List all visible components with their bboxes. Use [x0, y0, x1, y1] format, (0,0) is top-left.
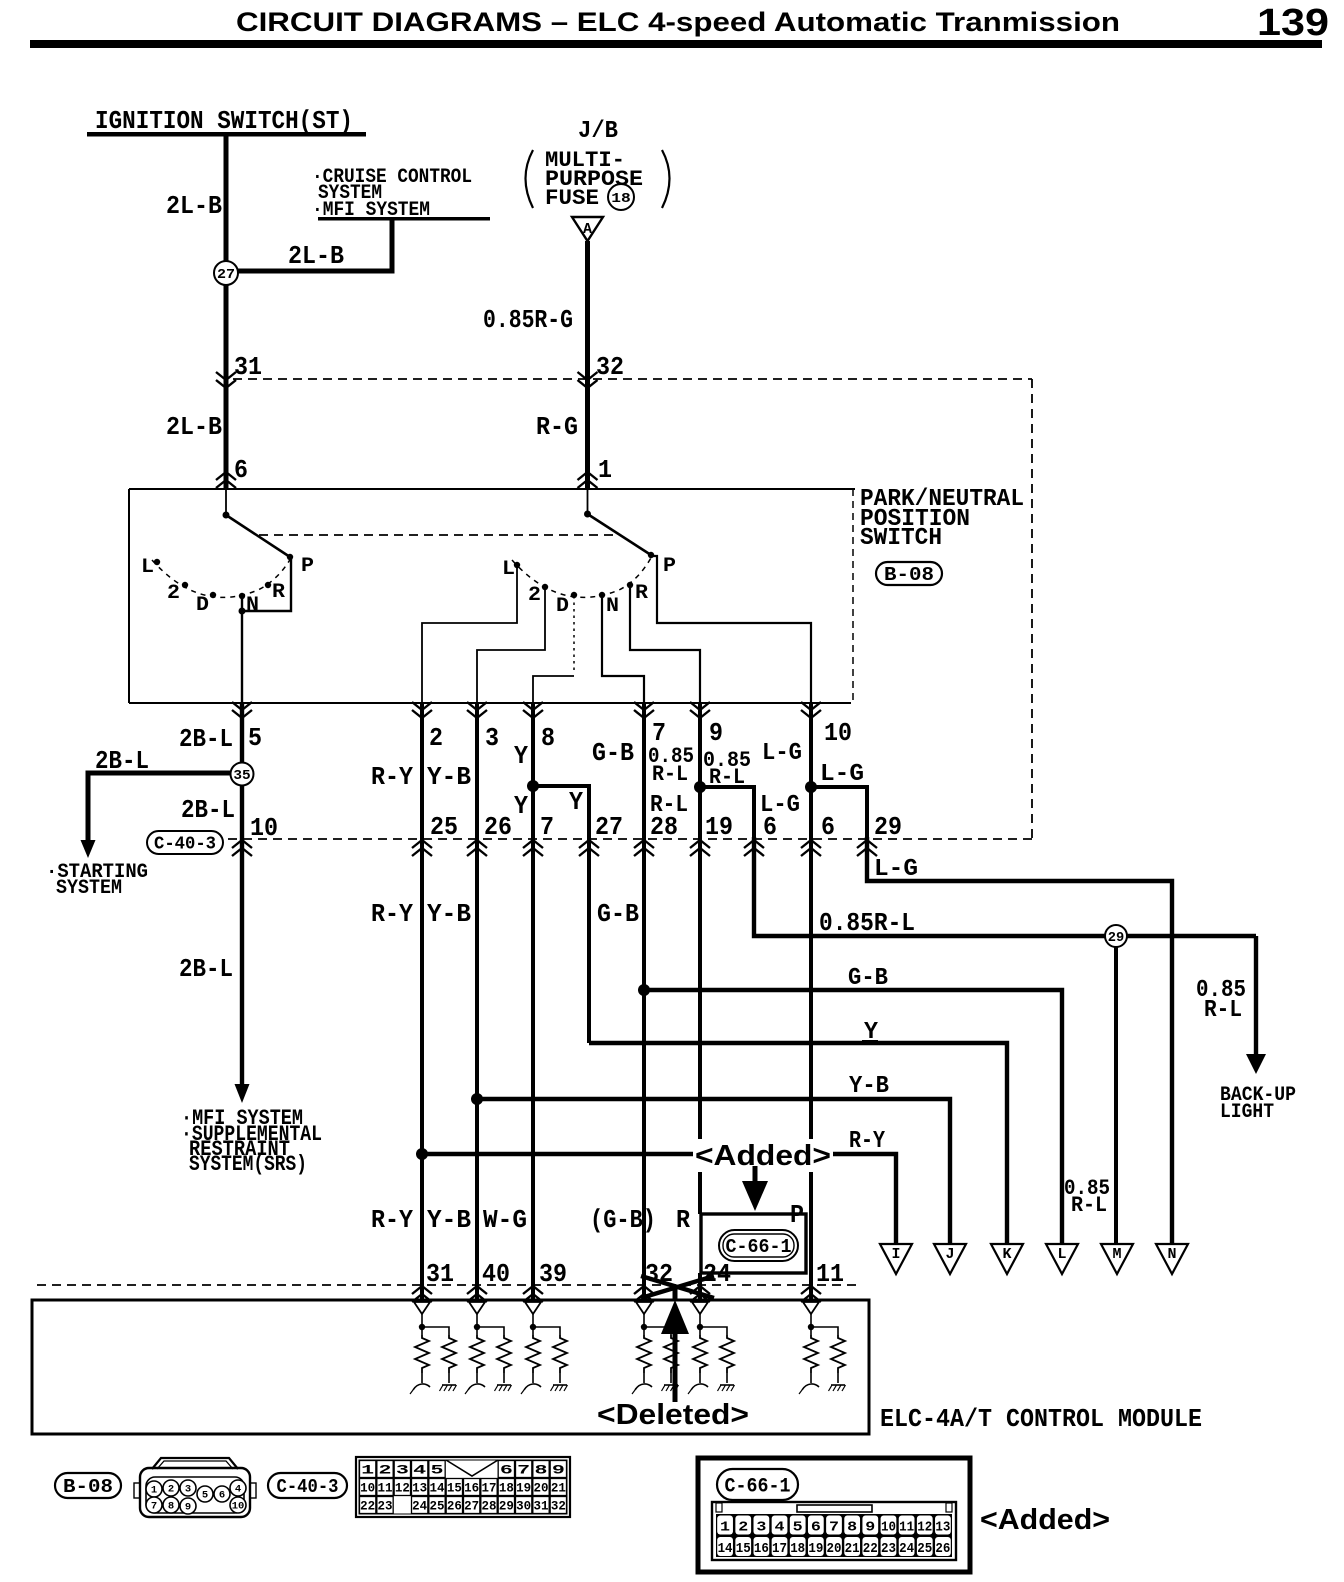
connector B-08 face view — [152, 1458, 238, 1469]
svg-text:139: 139 — [1257, 2, 1329, 44]
svg-text:6: 6 — [811, 1520, 821, 1536]
module pin 11 — [801, 1294, 821, 1302]
svg-text:L: L — [502, 558, 515, 581]
svg-text:G-B: G-B — [848, 965, 888, 992]
wire 2B-L to MFI/SRS — [240, 837, 244, 1086]
svg-text:29: 29 — [499, 1499, 514, 1514]
junction on L-G wire — [805, 781, 817, 793]
switch 1 N wire — [241, 596, 243, 611]
connector pin 6 — [801, 848, 821, 856]
svg-text:10: 10 — [881, 1520, 896, 1536]
svg-text:19: 19 — [516, 1481, 531, 1496]
svg-text:18: 18 — [790, 1541, 805, 1557]
svg-text:18: 18 — [611, 191, 631, 207]
switch 2 D wire dotted — [573, 596, 575, 674]
svg-text:G-B: G-B — [597, 899, 639, 929]
wire R-Y to terminal I — [422, 1154, 896, 1244]
switch 2 P wire to pin 10 — [651, 556, 811, 703]
header rule — [30, 40, 1322, 48]
svg-text:25: 25 — [917, 1541, 932, 1557]
wire 2B-L — [240, 703, 244, 762]
svg-text:13: 13 — [412, 1481, 427, 1496]
B-08 pin 5 — [197, 1486, 213, 1502]
connector B-08 tag — [55, 1473, 121, 1498]
ELC-4A/T control module box — [32, 1300, 869, 1434]
module input resistor network — [525, 1302, 541, 1314]
wire 0.85R-G — [585, 241, 590, 489]
wire R-Y lower — [420, 837, 424, 1285]
svg-text:J: J — [945, 1246, 954, 1263]
svg-text:25: 25 — [430, 812, 458, 842]
svg-text:21: 21 — [551, 1481, 566, 1496]
svg-text:11: 11 — [816, 1259, 844, 1289]
svg-text:1: 1 — [720, 1520, 730, 1536]
svg-text:40: 40 — [482, 1259, 510, 1289]
svg-text:15: 15 — [736, 1541, 751, 1557]
pin 8 — [523, 702, 543, 710]
wire R-Y — [420, 703, 424, 837]
module pin 24 — [690, 1294, 710, 1302]
pin 7 — [634, 702, 654, 710]
svg-text:17: 17 — [482, 1481, 497, 1496]
park/neutral switch box — [129, 488, 855, 490]
harness boundary dashed bottom — [228, 838, 1032, 840]
module input resistor network — [803, 1302, 819, 1314]
svg-text:12: 12 — [395, 1481, 410, 1496]
svg-text:B-08: B-08 — [63, 1476, 113, 1498]
svg-text:19: 19 — [705, 812, 733, 842]
svg-text:P: P — [790, 1200, 804, 1230]
svg-text:A: A — [583, 221, 592, 238]
connector pin 7 — [523, 848, 543, 856]
svg-text:C-66-1: C-66-1 — [726, 1236, 792, 1258]
wire R to pin 24 — [698, 1273, 702, 1285]
svg-text:23: 23 — [881, 1541, 896, 1557]
wire G-B to terminal L — [644, 990, 1062, 1244]
svg-text:6: 6 — [234, 455, 248, 485]
svg-text:13: 13 — [935, 1520, 950, 1536]
terminal J — [934, 1244, 966, 1274]
svg-text:10: 10 — [824, 718, 852, 748]
svg-text:7: 7 — [151, 1501, 157, 1513]
connector C-66-1 detail box — [698, 1458, 970, 1572]
junction on R-Y wire — [416, 1148, 428, 1160]
svg-text:R-L: R-L — [1204, 997, 1242, 1024]
svg-text:9: 9 — [709, 718, 723, 748]
junction 29 — [1105, 925, 1127, 947]
svg-text:3: 3 — [396, 1463, 409, 1478]
terminal M — [1101, 1244, 1133, 1274]
connector C-66-1 box — [701, 1214, 806, 1273]
svg-text:W-G: W-G — [483, 1205, 527, 1235]
svg-text:16: 16 — [754, 1541, 769, 1557]
svg-text:6: 6 — [219, 1490, 225, 1502]
svg-text:P: P — [663, 555, 676, 578]
svg-text:25: 25 — [430, 1499, 445, 1514]
wire P lower — [809, 837, 813, 1285]
svg-text:26: 26 — [447, 1499, 462, 1514]
svg-text:8: 8 — [535, 1463, 548, 1478]
module input resistor network — [636, 1302, 652, 1314]
svg-text:10: 10 — [360, 1481, 375, 1496]
svg-text:3: 3 — [485, 723, 499, 753]
pin 2 — [412, 702, 432, 710]
svg-text:29: 29 — [1108, 930, 1125, 946]
svg-text:2B-L: 2B-L — [179, 954, 233, 984]
svg-text:22: 22 — [863, 1541, 878, 1557]
svg-text:D: D — [556, 595, 569, 618]
deleted cross mark — [641, 1276, 714, 1298]
module pin 39 — [523, 1294, 543, 1302]
svg-text:9: 9 — [552, 1463, 565, 1478]
wire Y to terminal K — [589, 1043, 1007, 1244]
connector pin 26 — [467, 848, 487, 856]
svg-text:FUSE: FUSE — [545, 186, 599, 211]
svg-text:7: 7 — [517, 1463, 530, 1478]
svg-text:24: 24 — [412, 1499, 427, 1514]
svg-text:23: 23 — [378, 1499, 393, 1514]
svg-text:32: 32 — [596, 352, 624, 382]
svg-text:24: 24 — [703, 1259, 731, 1289]
svg-text:8: 8 — [541, 723, 555, 753]
svg-text:Y: Y — [514, 791, 528, 821]
pin 9 — [690, 702, 710, 710]
switch 2 wiper feed — [587, 489, 589, 514]
B-08 pin 2 — [163, 1480, 179, 1496]
svg-text:2L-B: 2L-B — [166, 412, 222, 442]
svg-text:R-L: R-L — [652, 762, 688, 787]
svg-text:30: 30 — [516, 1499, 531, 1514]
connector pin 27 — [579, 848, 599, 856]
svg-text:R: R — [272, 581, 285, 604]
svg-text:K: K — [1002, 1246, 1011, 1263]
deleted arrow — [673, 1330, 678, 1402]
connector pin 1 — [578, 480, 598, 488]
ignition switch bus bar — [87, 132, 366, 137]
added note — [693, 1139, 833, 1172]
switch 2 contact arc — [512, 556, 652, 597]
wire 0.85R-L — [698, 703, 702, 837]
svg-text:D: D — [196, 594, 209, 617]
svg-text:3: 3 — [185, 1484, 191, 1496]
svg-text:20: 20 — [827, 1541, 842, 1557]
control module dashed boundary — [37, 1284, 857, 1286]
wire 2L-B branch to cruise/MFI — [238, 219, 392, 271]
svg-text:17: 17 — [772, 1541, 787, 1557]
svg-text:24: 24 — [899, 1541, 914, 1557]
svg-text:2B-L: 2B-L — [179, 724, 233, 754]
svg-text:39: 39 — [539, 1259, 567, 1289]
svg-text:R-Y: R-Y — [371, 762, 413, 792]
svg-text:LIGHT: LIGHT — [1220, 1101, 1274, 1124]
svg-text:1: 1 — [361, 1463, 374, 1478]
B-08 pin 6 — [214, 1486, 230, 1502]
svg-text:J/B: J/B — [578, 118, 618, 145]
B-08 pin 7 — [146, 1497, 162, 1513]
svg-text:IGNITION SWITCH(ST): IGNITION SWITCH(ST) — [95, 106, 353, 136]
switch 1 wiper — [226, 515, 290, 557]
svg-text:M: M — [1112, 1246, 1121, 1263]
svg-text:R-G: R-G — [536, 412, 578, 442]
svg-text:Y: Y — [569, 787, 583, 817]
svg-text:6: 6 — [821, 812, 835, 842]
svg-text:R-L: R-L — [1071, 1193, 1107, 1218]
svg-text:5: 5 — [202, 1490, 208, 1502]
B-08 pin 3 — [180, 1480, 196, 1496]
pin 10 of C-40-3 — [232, 848, 252, 856]
connector A triangle — [572, 217, 603, 241]
switch 2 N wire to pin 7 — [602, 596, 644, 703]
module pin 40 — [467, 1294, 487, 1302]
connector pin 19 — [690, 848, 710, 856]
svg-text:0.85R-G: 0.85R-G — [483, 305, 573, 335]
svg-text:Y-B: Y-B — [427, 762, 471, 792]
C-40-3 keyway — [446, 1460, 498, 1476]
svg-text:P: P — [301, 555, 314, 578]
svg-text:31: 31 — [534, 1499, 549, 1514]
pin 10 — [801, 702, 821, 710]
wire Y-B lower — [475, 837, 479, 1285]
svg-text:2B-L: 2B-L — [95, 746, 149, 776]
svg-text:L-G: L-G — [874, 856, 918, 883]
wire Y-B — [475, 703, 479, 837]
B-08 pin 1 — [146, 1481, 162, 1497]
svg-text:R: R — [676, 1205, 690, 1235]
svg-text:35: 35 — [233, 768, 250, 784]
svg-text:R-Y: R-Y — [371, 899, 413, 929]
switch 2 "2" wire to pin 3 — [477, 588, 545, 703]
svg-text:N: N — [1167, 1246, 1176, 1263]
pin 5 — [232, 702, 252, 710]
switch 1 contacts — [154, 559, 160, 565]
svg-text:CIRCUIT DIAGRAMS – ELC 4-speed: CIRCUIT DIAGRAMS – ELC 4-speed Automatic… — [236, 7, 1120, 37]
svg-text:21: 21 — [845, 1541, 860, 1557]
svg-text:9: 9 — [185, 1502, 191, 1514]
svg-text:0.85R-L: 0.85R-L — [819, 908, 915, 938]
wire Y lower — [587, 837, 591, 1043]
fuse number 18 — [608, 184, 634, 210]
wire 0.85R-L to back-up light — [754, 837, 1256, 936]
svg-text:26: 26 — [484, 812, 512, 842]
connector pin 28 — [634, 848, 654, 856]
svg-text:SYSTEM(SRS): SYSTEM(SRS) — [189, 1152, 307, 1177]
svg-text:R-Y: R-Y — [849, 1128, 885, 1155]
svg-text:28: 28 — [482, 1499, 497, 1514]
connector pin 6 — [744, 848, 764, 856]
switch 1 wiper feed — [225, 489, 227, 515]
svg-text:2: 2 — [429, 723, 443, 753]
svg-text:5: 5 — [431, 1463, 444, 1478]
wire G-B — [642, 703, 646, 837]
svg-text:31: 31 — [426, 1259, 454, 1289]
wire 2B-L to starting system — [88, 773, 230, 842]
svg-text:Y-B: Y-B — [849, 1073, 889, 1100]
svg-text:L: L — [1057, 1246, 1066, 1263]
svg-text:2B-L: 2B-L — [181, 795, 235, 825]
harness boundary dashed top — [233, 378, 1032, 380]
connector pin 25 — [412, 848, 432, 856]
junction on G-B wire — [638, 984, 650, 996]
module input resistor network — [469, 1302, 485, 1314]
svg-text:31: 31 — [234, 352, 262, 382]
svg-text:12: 12 — [917, 1520, 932, 1536]
svg-text:5: 5 — [793, 1520, 803, 1536]
svg-text:1: 1 — [151, 1485, 157, 1497]
back-up light feed arrow — [1254, 936, 1258, 1056]
switch 2 D wire to pin 8 — [533, 676, 574, 703]
wire L-G to terminal N — [867, 837, 1172, 1244]
svg-text:<Deleted>: <Deleted> — [597, 1399, 749, 1431]
svg-text:R: R — [635, 582, 648, 605]
wire 2L-B from ignition switch — [224, 136, 229, 489]
svg-text:8: 8 — [168, 1501, 174, 1513]
svg-text:15: 15 — [447, 1481, 462, 1496]
module pin 31 — [412, 1294, 432, 1302]
terminal K — [991, 1244, 1023, 1274]
terminal N — [1156, 1244, 1188, 1274]
svg-text:5: 5 — [248, 723, 262, 753]
svg-text:3: 3 — [756, 1520, 766, 1536]
svg-text:16: 16 — [464, 1481, 479, 1496]
B-08 pin 4 — [230, 1480, 246, 1496]
svg-text:G-B: G-B — [592, 738, 634, 768]
junction 27 — [214, 261, 238, 285]
wire R lower — [698, 837, 702, 1214]
C-66-1 face view — [712, 1502, 956, 1560]
switch 2 R wire to pin 9 — [630, 586, 700, 703]
B-08 pin 8 — [163, 1497, 179, 1513]
terminal L — [1046, 1244, 1078, 1274]
wire G-B lower — [642, 837, 646, 1285]
svg-text:B-08: B-08 — [884, 564, 934, 586]
svg-text:9: 9 — [865, 1520, 875, 1536]
module input resistor network — [692, 1302, 708, 1314]
B-08 pin 9 — [180, 1498, 196, 1514]
connector B-08 tag — [876, 562, 942, 585]
svg-text:2: 2 — [379, 1463, 392, 1478]
svg-text:4: 4 — [413, 1463, 426, 1478]
svg-text:L-G: L-G — [820, 761, 864, 788]
junction 35 — [231, 763, 254, 786]
wire L-G — [809, 703, 813, 837]
svg-text:7: 7 — [540, 812, 554, 842]
svg-text:20: 20 — [534, 1481, 549, 1496]
svg-text:8: 8 — [847, 1520, 857, 1536]
svg-text:<Added>: <Added> — [695, 1140, 831, 1172]
svg-text:29: 29 — [874, 812, 902, 842]
wire Y-B to terminal J — [477, 1099, 950, 1244]
svg-text:C-66-1: C-66-1 — [725, 1475, 791, 1498]
connector 31 — [216, 372, 236, 380]
svg-text:R-Y: R-Y — [371, 1205, 413, 1235]
svg-text:11: 11 — [378, 1481, 393, 1496]
svg-text:N: N — [606, 595, 619, 618]
svg-text:18: 18 — [499, 1481, 514, 1496]
added arrow — [753, 1166, 758, 1182]
connector C-40-3 face view — [356, 1457, 570, 1517]
svg-text:(G-B): (G-B) — [590, 1205, 656, 1235]
svg-text:11: 11 — [899, 1520, 914, 1536]
harness boundary dashed right — [1031, 379, 1033, 839]
svg-text:L-G: L-G — [762, 740, 802, 767]
svg-text:32: 32 — [551, 1499, 566, 1514]
junction on R-L wire — [694, 781, 706, 793]
svg-text:19: 19 — [808, 1541, 823, 1557]
svg-text:C-40-3: C-40-3 — [277, 1476, 339, 1498]
svg-text:14: 14 — [430, 1481, 445, 1496]
switch 2 contacts — [514, 562, 520, 568]
junction on Y-B wire — [471, 1093, 483, 1105]
terminal I — [880, 1244, 912, 1274]
svg-text:2: 2 — [738, 1520, 748, 1536]
module pin 32 — [634, 1294, 654, 1302]
junction on Y wire — [527, 780, 539, 792]
svg-text:<Added>: <Added> — [980, 1504, 1110, 1536]
svg-text:L: L — [141, 556, 154, 579]
svg-text:ELC-4A/T CONTROL MODULE: ELC-4A/T CONTROL MODULE — [880, 1404, 1202, 1434]
wire W-G lower — [531, 837, 535, 1285]
svg-text:2L-B: 2L-B — [288, 241, 344, 271]
B-08 pin 10 — [230, 1497, 246, 1513]
svg-text:4: 4 — [775, 1520, 785, 1536]
svg-text:1: 1 — [598, 455, 612, 485]
svg-text:2L-B: 2L-B — [166, 191, 222, 221]
svg-text:22: 22 — [360, 1499, 375, 1514]
svg-text:27: 27 — [464, 1499, 479, 1514]
svg-text:Y: Y — [514, 741, 528, 771]
svg-text:26: 26 — [935, 1541, 950, 1557]
svg-text:SWITCH: SWITCH — [860, 525, 942, 552]
svg-text:10: 10 — [232, 1501, 245, 1513]
connector C-40-3 tag — [147, 831, 223, 854]
svg-text:Y-B: Y-B — [427, 1205, 471, 1235]
connector pin 29 — [857, 848, 877, 856]
svg-text:C-40-3: C-40-3 — [154, 835, 216, 855]
svg-text:2: 2 — [528, 584, 541, 607]
svg-text:4: 4 — [235, 1484, 241, 1496]
connector C-40-3 tag — [268, 1473, 347, 1498]
svg-text:2: 2 — [167, 582, 180, 605]
module input resistor network — [414, 1302, 430, 1314]
pin 3 — [467, 702, 487, 710]
wire 2B-L lower — [240, 786, 244, 837]
connector 32 — [578, 372, 598, 380]
svg-text:27: 27 — [595, 812, 623, 842]
svg-text:I: I — [891, 1246, 900, 1263]
switch 2 L wire to pin 2 — [422, 566, 517, 703]
svg-text:Y-B: Y-B — [427, 899, 471, 929]
svg-text:SYSTEM: SYSTEM — [56, 877, 122, 900]
switch 1 P wire — [242, 558, 291, 611]
wire to terminal M — [1114, 947, 1118, 1244]
svg-text:7: 7 — [829, 1520, 839, 1536]
svg-text:27: 27 — [217, 267, 235, 283]
connector pin 6 — [216, 480, 236, 488]
svg-text:14: 14 — [718, 1541, 733, 1557]
switch 1 contact arc — [152, 558, 291, 597]
svg-text:6: 6 — [763, 812, 777, 842]
svg-text:2: 2 — [168, 1484, 174, 1496]
svg-text:28: 28 — [650, 812, 678, 842]
wiper linkage dashed — [259, 534, 618, 536]
switch 2 wiper — [588, 514, 652, 555]
svg-text:6: 6 — [500, 1463, 513, 1478]
wire Y — [531, 703, 535, 837]
svg-text:N: N — [246, 594, 259, 617]
